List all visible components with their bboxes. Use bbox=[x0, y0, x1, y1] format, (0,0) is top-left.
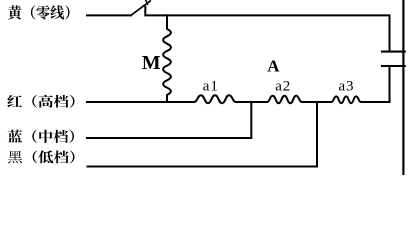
svg-text:M: M bbox=[142, 52, 161, 74]
svg-text:A: A bbox=[267, 57, 280, 76]
svg-text:a1: a1 bbox=[203, 78, 219, 94]
svg-text:a3: a3 bbox=[339, 78, 355, 94]
svg-text:a2: a2 bbox=[275, 78, 291, 94]
